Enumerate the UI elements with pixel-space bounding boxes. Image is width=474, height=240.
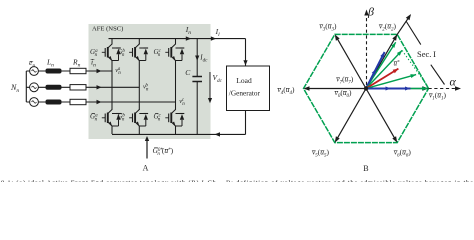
voltage Vdc arrow [209,72,211,101]
wire arrow phase c [97,100,102,104]
svg-text:v̅5(u̅5): v̅5(u̅5) [311,147,329,158]
DC- bottom rail with return arrow [112,133,246,135]
transistor upper IGBT leg A [102,44,121,62]
green vector along alpha [366,88,428,90]
transistor upper IGBT leg C [165,44,184,62]
blue vector along v2 [366,52,385,89]
vector v6 black [366,89,396,141]
capacitor C plates [192,77,202,82]
svg-text:v̅3(u̅3): v̅3(u̅3) [319,22,337,33]
svg-text:Rn: Rn [72,58,81,69]
source en phase c [30,98,39,107]
node center dot [364,86,368,90]
vector v5 black [336,89,366,141]
vector v1 black [366,88,427,90]
wire load return [245,111,247,135]
transistor upper IGBT leg B [129,44,148,62]
AFE converter gray background box [89,24,211,139]
source en phase a [30,67,39,76]
wire left bus [25,71,27,102]
current Idc arrow [195,56,199,61]
green vector along v2 [366,42,396,88]
inductor Ln phase a [46,69,62,74]
svg-text:e̅n: e̅n [29,58,35,69]
vector v3 black [336,36,366,88]
vector v2 black with sector boundary extension [366,15,410,88]
svg-text:Vdc: Vdc [213,73,223,84]
transistor lower IGBT leg B [129,109,148,127]
gate signal arrow into converter [146,140,148,159]
DC+ top rail [109,38,246,40]
svg-text:Nn: Nn [10,83,19,94]
wire inductors to resistors [62,71,71,102]
current Il arrow outside box [211,36,216,40]
svg-text:A: A [143,164,149,173]
svg-text:v̅6(u̅6): v̅6(u̅6) [393,147,411,158]
load generator box [227,66,270,111]
green vector 15deg [366,75,416,89]
leg A wire [111,39,113,134]
svg-text:v̅7(u̅7): v̅7(u̅7) [336,75,354,86]
leg C wire [175,39,177,134]
wire sources to inductors [38,71,45,102]
source en phase b [30,83,39,92]
beta axis dashed [366,11,368,85]
wire converter to load [245,39,247,66]
svg-text:v̅4(u̅4): v̅4(u̅4) [277,85,295,96]
svg-text:Il: Il [215,27,221,38]
wire resistors into converter with arrows [86,71,176,102]
transistor lower IGBT leg C [165,109,184,127]
vector v4 black [305,88,366,90]
wire arrow phase b [97,85,102,89]
red reference vector u* [366,69,398,89]
svg-text:v̅1(u̅1): v̅1(u̅1) [428,90,446,101]
wire arrow phase a [97,69,102,73]
svg-text:G̅0*n(u̅*): G̅0*n(u̅*) [153,146,174,157]
sector I boundary tick line [406,21,445,85]
resistor Rn phase c [70,99,86,104]
svg-text:α: α [450,75,457,89]
resistor Rn phase a [70,68,86,73]
inductor Ln phase c [46,100,62,105]
svg-text:B: B [363,164,368,173]
leg B wire [138,39,140,134]
svg-text:β: β [367,5,374,19]
blue vector along alpha [366,88,411,90]
svg-text:v̅2(u̅2): v̅2(u̅2) [378,22,396,33]
svg-text:8.1: (a) ideal Active Front En: 8.1: (a) ideal Active Front End converte… [1,179,473,182]
svg-text:/Generator: /Generator [229,88,261,97]
inductor Ln phase b [46,85,62,90]
green dotted construction line [402,50,427,86]
svg-text:Ln: Ln [46,58,54,69]
svg-text:v̅0(u̅0): v̅0(u̅0) [334,88,352,99]
alpha axis dashed [429,88,460,90]
svg-text:Load: Load [236,76,252,85]
hexagon of voltage vectors (green dashed) [304,34,429,142]
svg-text:u̅*: u̅* [393,60,400,68]
current In arrow on rail [186,36,191,40]
transistor lower IGBT leg A [102,109,121,127]
wire bus to sources [26,71,29,102]
resistor Rn phase b [70,85,86,90]
svg-text:AFE (NSC): AFE (NSC) [92,25,123,32]
green vector 46deg [366,50,402,88]
capacitor C branch wire [196,39,198,135]
svg-text:Sec. I: Sec. I [417,49,436,59]
